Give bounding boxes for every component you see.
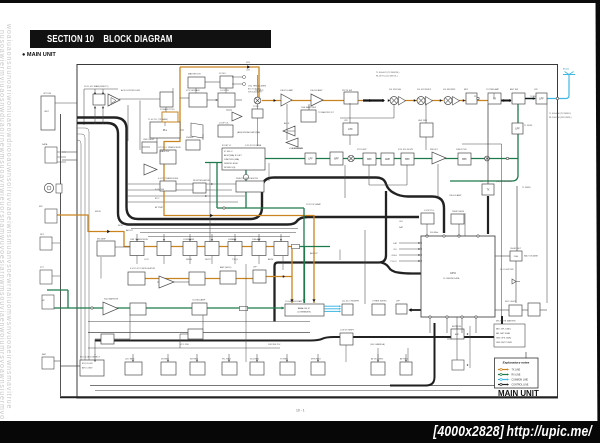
svg-text:TL 400-400 (TX DR/DL): TL 400-400 (TX DR/DL): [549, 113, 571, 115]
svg-text:10 - 1: 10 - 1: [296, 409, 305, 413]
svg-text:BPF: BPF: [464, 89, 469, 91]
svg-text:IC 301-C: IC 301-C: [224, 151, 233, 153]
svg-text:TX REG: TX REG: [280, 359, 288, 361]
svg-text:C/CC: C/CC: [144, 259, 150, 261]
svg-text:C/A VOL AMP: C/A VOL AMP: [280, 89, 294, 92]
svg-text:TCXO: TCXO: [253, 106, 259, 108]
svg-text:MB: DAT 10MA: MB: DAT 10MA: [496, 332, 510, 335]
svg-text:TL 5B/3D: TL 5B/3D: [522, 187, 531, 189]
svg-text:LPF: LPF: [344, 120, 349, 122]
svg-text:TL 400-470 (TX DRV/DL): TL 400-470 (TX DRV/DL): [376, 72, 400, 74]
svg-text:BPF: BPF: [405, 159, 410, 161]
svg-text:MASTER DIV: MASTER DIV: [188, 73, 201, 76]
svg-text:TX: TX: [486, 189, 489, 192]
svg-text:C51 MIC/AMP: C51 MIC/AMP: [192, 299, 206, 302]
svg-text:IC'S VM MAIN: IC'S VM MAIN: [186, 89, 200, 92]
svg-text:GND DNT POWR: GND DNT POWR: [496, 342, 512, 344]
svg-text:MIC/E: MIC/E: [95, 211, 101, 213]
svg-text:(TX MIX): (TX MIX): [255, 90, 264, 92]
svg-text:LPF: LPF: [515, 128, 520, 131]
svg-text:10M AMP: 10M AMP: [252, 238, 262, 241]
svg-text:MTR REG: MTR REG: [311, 359, 321, 361]
svg-text:EEP: EEP: [455, 334, 460, 336]
svg-text:FM DET: FM DET: [430, 149, 438, 151]
svg-text:(10) 5R 80 SHIFT: (10) 5R 80 SHIFT: [496, 181, 513, 183]
svg-text:X.55 POLY/DATA: X.55 POLY/DATA: [245, 144, 262, 147]
svg-text:MIC: MIC: [39, 206, 43, 208]
svg-text:10. LIGHT SW: 10. LIGHT SW: [500, 269, 514, 271]
svg-text:PLL: PLL: [163, 129, 168, 132]
svg-text:RF ATTENUATOR: RF ATTENUATOR: [193, 179, 210, 182]
svg-text:MAIN DIV: MAIN DIV: [160, 150, 170, 153]
svg-text:MID: GPL 10MQ: MID: GPL 10MQ: [496, 329, 511, 331]
svg-text:ATT/LO REG: ATT/LO REG: [371, 358, 384, 361]
svg-text:C51-A/DESCRAM: C51-A/DESCRAM: [285, 300, 302, 303]
svg-text:SP2: SP2: [40, 234, 45, 236]
svg-text:S-CLOSE: S-CLOSE: [155, 189, 165, 191]
svg-text:DET/C: DET/C: [205, 259, 212, 261]
svg-text:10L MIC/BPF: 10L MIC/BPF: [443, 89, 456, 91]
svg-text:CHGR DET: CHGR DET: [510, 248, 522, 250]
svg-text:LOOP FIL: LOOP FIL: [220, 90, 230, 92]
svg-text:TL 58/30: TL 58/30: [524, 125, 533, 127]
svg-text:MIC MUTE MASTER: MIC MUTE MASTER: [496, 320, 516, 323]
svg-text:C/A 100 AMP: C/A 100 AMP: [310, 89, 323, 92]
svg-text:PTT: PTT: [40, 267, 45, 269]
svg-text:10L RX/CHG: 10L RX/CHG: [389, 89, 401, 91]
svg-text:LIM/AMP: LIM/AMP: [228, 238, 237, 241]
svg-text:DAT: DAT: [399, 226, 404, 229]
svg-text:THE MAST/BUF: THE MAST/BUF: [301, 106, 317, 109]
svg-text:CLK: CLK: [399, 221, 404, 223]
svg-text:B/MODE: B/MODE: [126, 225, 135, 227]
svg-text:300 MHz: 300 MHz: [430, 232, 438, 234]
svg-text:VCC 5R0: VCC 5R0: [180, 344, 190, 346]
svg-text:ACN CONTROLLER: ACN CONTROLLER: [121, 89, 141, 92]
svg-text:AMP: AMP: [385, 158, 390, 161]
svg-text:L DET/5 SHIFT: L DET/5 SHIFT: [340, 330, 355, 332]
svg-text:(TX) TEM 10.4MHZ: (TX) TEM 10.4MHZ: [248, 86, 267, 88]
svg-text:PLL REG: PLL REG: [222, 359, 231, 361]
svg-text:(COMPANDER): (COMPANDER): [297, 311, 311, 314]
svg-text:DAT: DAT: [393, 242, 398, 245]
svg-text:AFOUT: AFOUT: [126, 229, 134, 232]
svg-text:SCJ REG: SCJ REG: [250, 359, 259, 361]
svg-text:LOOP PLL: LOOP PLL: [424, 210, 435, 212]
svg-text:UNIT: UNIT: [44, 111, 50, 113]
svg-text:(10L 5HMRD/A): (10L 5HMRD/A): [370, 343, 385, 346]
svg-text:5R REG: 5R REG: [161, 359, 169, 361]
svg-text:TEMP SENS: TEMP SENS: [452, 211, 465, 213]
svg-text:LPF: LPF: [534, 89, 539, 91]
svg-text:UHF DRV: UHF DRV: [418, 120, 428, 122]
svg-text:BPF: BPF: [334, 159, 339, 161]
svg-text:LPF: LPF: [348, 128, 353, 131]
svg-text:PD: PD: [474, 96, 477, 98]
svg-text:SQL NARROW: SQL NARROW: [104, 298, 118, 301]
svg-text:DATA: DATA: [42, 143, 48, 146]
svg-text:AF REG: AF REG: [400, 358, 408, 361]
svg-text:AN-500: AN-500: [563, 68, 569, 71]
svg-text:MIC AMP: MIC AMP: [97, 238, 106, 241]
svg-text:X3 MAIN TCXO: X3 MAIN TCXO: [160, 108, 175, 111]
svg-text:C5V: C5V: [246, 70, 251, 72]
svg-text:MOD: MOD: [118, 225, 123, 227]
svg-text:DEMOD RSSI: DEMOD RSSI: [224, 163, 238, 165]
svg-text:5N/BUF: 5N/BUF: [186, 137, 194, 139]
svg-text:10R 5R0 P/U: 10R 5R0 P/U: [268, 344, 281, 346]
svg-text:PHILIPS SM2 DESCRX: PHILIPS SM2 DESCRX: [236, 178, 259, 180]
svg-text:BT-S 10.8V: BT-S 10.8V: [82, 363, 93, 365]
svg-text:LPF: LPF: [539, 98, 544, 101]
svg-text:BAL VOLTAGE: BAL VOLTAGE: [524, 255, 539, 258]
svg-text:CONTROL LINE: CONTROL LINE: [512, 385, 529, 387]
svg-text:AMP (MOD): AMP (MOD): [220, 266, 232, 269]
svg-text:X0 1L 012 MAIN(DIRECT): X0 1L 012 MAIN(DIRECT): [84, 85, 109, 88]
svg-text:C/A 100 AMP: C/A 100 AMP: [449, 194, 462, 197]
svg-text:C/TX PLL TRANSCEIVE: C/TX PLL TRANSCEIVE: [158, 146, 181, 149]
svg-text:KEY LIGHT: KEY LIGHT: [505, 301, 517, 303]
svg-text:CHG: CHG: [514, 256, 519, 258]
svg-text:COMP/AMP: COMP/AMP: [183, 238, 195, 241]
svg-text:ANALOG IC: ANALOG IC: [298, 307, 310, 310]
svg-text:ALLN: ALLN: [284, 122, 290, 125]
svg-text:AF/M: AF/M: [268, 258, 273, 261]
svg-text:OPTION: OPTION: [43, 93, 51, 95]
svg-text:NOISE SQL: NOISE SQL: [224, 167, 237, 169]
svg-text:RL 58 TCL (10 DR D/L): RL 58 TCL (10 DR D/L): [376, 76, 398, 78]
svg-text:4.5/7.5 TRANSCEIVE: 4.5/7.5 TRANSCEIVE: [158, 177, 179, 180]
svg-text:IF DET IC: IF DET IC: [222, 145, 232, 147]
svg-text:LPF: LPF: [396, 301, 401, 303]
svg-text:MAIN UNIT: MAIN UNIT: [498, 389, 539, 398]
svg-text:BAT: BAT: [42, 353, 47, 356]
svg-text:10M RCVR: 10M RCVR: [456, 149, 467, 151]
svg-text:10. MB62M354RA: 10. MB62M354RA: [443, 277, 460, 280]
svg-text:COMMON LINE: COMMON LINE: [512, 380, 529, 382]
svg-text:IC51 455 RCVR: IC51 455 RCVR: [398, 149, 413, 151]
svg-text:AF/OUT: AF/OUT: [310, 252, 318, 255]
svg-text:TX PWR AMP: TX PWR AMP: [486, 88, 500, 91]
svg-text:BPF: BPF: [462, 159, 467, 161]
svg-text:X51 10M7: X51 10M7: [357, 149, 367, 151]
svg-text:RX REG: RX REG: [190, 359, 198, 361]
svg-text:LOOP C/L: LOOP C/L: [219, 123, 229, 125]
svg-text:AT&T(MA) IF DET: AT&T(MA) IF DET: [224, 154, 242, 157]
svg-text:LPF: LPF: [253, 267, 258, 269]
svg-text:LDO REG: LDO REG: [125, 359, 135, 361]
svg-text:(A/M) BROADCAST(MA): (A/M) BROADCAST(MA): [237, 131, 260, 134]
svg-text:PA: PA: [493, 98, 496, 101]
svg-text:BT-5 5.0A/CONNECT: BT-5 5.0A/CONNECT: [80, 356, 101, 359]
svg-text:TXVCC: TXVCC: [390, 261, 397, 263]
svg-text:GND OPK 10MQ: GND OPK 10MQ: [496, 338, 512, 340]
svg-text:D5V: D5V: [246, 62, 251, 64]
svg-text:RL 100-500 (RX DR/DL): RL 100-500 (RX DR/DL): [549, 117, 572, 119]
svg-text:1C3 POLY/AMP: 1C3 POLY/AMP: [306, 203, 321, 206]
svg-text:TL 00 TLL (TX MAIN): TL 00 TLL (TX MAIN): [148, 118, 168, 121]
svg-text:W/IDE: W/IDE: [186, 259, 193, 261]
svg-text:10M TRANSCEIVE: 10M TRANSCEIVE: [130, 238, 148, 241]
svg-text:10M7/455 (MA): 10M7/455 (MA): [224, 158, 239, 161]
svg-text:TX MAST/RX 5/7: TX MAST/RX 5/7: [318, 111, 335, 114]
svg-text:AF5 CONV: AF5 CONV: [82, 367, 93, 370]
svg-text:(C) 10L CH/DMPR: (C) 10L CH/DMPR: [342, 301, 360, 303]
svg-text:Explanatory notes: Explanatory notes: [503, 361, 530, 365]
svg-text:BPF: BPF: [367, 159, 372, 161]
svg-text:CMD IDENT: CMD IDENT: [143, 139, 155, 141]
svg-text:CPU: CPU: [450, 271, 456, 275]
svg-text:OTHER SW/RX: OTHER SW/RX: [372, 301, 387, 303]
svg-text:ANT SW: ANT SW: [510, 88, 518, 91]
svg-text:10L FLT/MULTI: 10L FLT/MULTI: [417, 89, 432, 91]
svg-text:LPF: LPF: [308, 159, 313, 161]
svg-text:TX LINE: TX LINE: [512, 370, 521, 372]
svg-text:TL/AN: TL/AN: [530, 95, 536, 98]
svg-text:CLK: CLK: [393, 249, 398, 251]
svg-text:X2 DIV: X2 DIV: [219, 73, 226, 75]
svg-text:CE/LE: CE/LE: [391, 255, 397, 257]
svg-text:VGA BROKEN: VGA BROKEN: [289, 147, 303, 150]
svg-text:ATT/SET: ATT/SET: [155, 206, 164, 209]
svg-text:RX LINE: RX LINE: [512, 375, 521, 377]
svg-text:T/SQL: T/SQL: [232, 259, 239, 261]
svg-text:RX/TX SW: RX/TX SW: [342, 90, 352, 92]
svg-text:8T/C: 8T/C: [155, 198, 160, 200]
svg-text:EEPROM: EEPROM: [452, 326, 461, 328]
svg-text:4.5/1.5 VCO MODULATOR: 4.5/1.5 VCO MODULATOR: [130, 267, 156, 270]
